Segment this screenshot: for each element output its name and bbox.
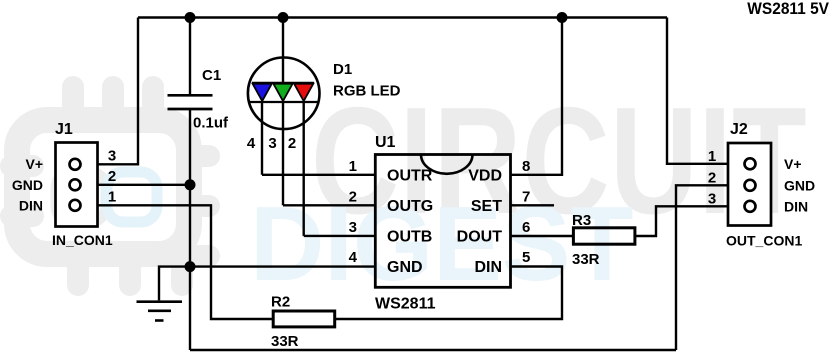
svg-text:WS2811: WS2811 (375, 296, 436, 313)
svg-text:OUTB: OUTB (387, 228, 432, 245)
wire: LED anode drop (282, 18, 284, 85)
wire: R3 to J2 pin3 (635, 206, 744, 236)
svg-text:R2: R2 (271, 294, 290, 311)
svg-text:GND: GND (387, 259, 423, 276)
wire: ground branch (159, 267, 190, 301)
svg-text:RGB LED: RGB LED (333, 83, 401, 100)
capacitor C1 (168, 95, 213, 109)
junction node: top rail / pin8 (557, 12, 568, 23)
wire: GND to IC pin4 (190, 265, 375, 267)
svg-text:GND: GND (784, 178, 815, 194)
svg-text:7: 7 (522, 188, 530, 205)
watermark logo monogram d (107, 172, 157, 222)
svg-text:WS2811 5V: WS2811 5V (747, 0, 829, 18)
wire: LED cathode drop pin3 (282, 102, 284, 205)
wire: R2 to IC pin5 (336, 267, 562, 320)
svg-text:2: 2 (349, 188, 357, 205)
svg-text:DIN: DIN (784, 199, 808, 215)
svg-text:2: 2 (108, 168, 116, 185)
wire: LED cathode drop pin2 (303, 102, 305, 236)
wire: GND bottom rail (190, 349, 676, 351)
wire: J1 pin1 DIN down to R2 (82, 205, 272, 319)
svg-text:3: 3 (108, 148, 116, 165)
svg-text:D1: D1 (333, 61, 352, 78)
junction node: top rail / LED (278, 12, 289, 23)
wire: C1 bottom lead (189, 109, 191, 185)
LED green chip (273, 84, 292, 101)
svg-text:J1: J1 (55, 121, 73, 138)
resistor R3 (573, 228, 635, 244)
wire: IC pin3 OUTB (304, 235, 375, 237)
svg-text:6: 6 (522, 219, 530, 236)
ground (137, 302, 183, 321)
svg-text:SET: SET (471, 198, 502, 215)
svg-text:2: 2 (708, 170, 716, 187)
wire: IC pin1 OUTR (262, 174, 375, 176)
connector J2 (728, 143, 771, 226)
wire: IC pin2 OUTG (283, 204, 375, 206)
wire: LED cathode drop pin4 (261, 102, 263, 175)
svg-text:DIN: DIN (19, 198, 43, 214)
wire: IC pin7 SET stub (510, 204, 554, 206)
LED blue chip (253, 84, 272, 101)
watermark logo (0, 76, 220, 296)
junction node: top rail / C1 (185, 12, 196, 23)
svg-text:3: 3 (349, 219, 357, 236)
svg-text:3: 3 (708, 191, 716, 208)
svg-text:1: 1 (108, 189, 116, 206)
svg-text:33R: 33R (572, 251, 600, 268)
svg-text:0.1uf: 0.1uf (193, 115, 229, 132)
svg-text:4: 4 (247, 135, 256, 152)
svg-text:J2: J2 (730, 121, 748, 138)
svg-text:1: 1 (349, 158, 357, 175)
svg-text:4: 4 (349, 249, 358, 266)
svg-text:V+: V+ (25, 156, 43, 172)
IC U1 WS2811 (375, 155, 510, 288)
svg-text:OUTR: OUTR (387, 167, 433, 184)
svg-text:VDD: VDD (468, 167, 502, 184)
RGB LED D1 (248, 58, 320, 130)
svg-text:DIN: DIN (474, 259, 502, 276)
svg-text:R3: R3 (572, 212, 591, 229)
wire: J1 pin3 to top rail (82, 18, 138, 165)
svg-text:DOUT: DOUT (457, 228, 503, 245)
wire: IC pin8 to top rail (510, 18, 562, 175)
svg-text:OUT_CON1: OUT_CON1 (726, 233, 802, 249)
svg-text:33R: 33R (271, 333, 299, 350)
connector J1 (56, 143, 98, 227)
wire: GND vertical (189, 185, 191, 350)
junction node: GND / ground symbol (185, 261, 196, 272)
wire: J2 pin2 to bottom rail (676, 185, 744, 350)
svg-text:IN_CON1: IN_CON1 (52, 232, 113, 248)
svg-text:8: 8 (522, 158, 530, 175)
wire: C1 top lead (189, 18, 191, 96)
svg-text:C1: C1 (202, 67, 221, 84)
wire: V+ top rail (138, 16, 667, 18)
svg-text:2: 2 (288, 135, 296, 152)
svg-text:GND: GND (12, 177, 43, 193)
svg-text:3: 3 (268, 135, 276, 152)
svg-text:OUTG: OUTG (387, 198, 433, 215)
watermark logo monogram c (56, 172, 106, 222)
wire: top rail to J2 pin1 (667, 18, 744, 164)
wire: J1 pin2 GND (82, 184, 190, 186)
svg-text:5: 5 (522, 249, 530, 266)
junction node: GND / C1 bottom (185, 179, 196, 190)
wire: IC pin6 to R3 (510, 235, 573, 237)
LED red chip (294, 84, 313, 101)
svg-text:1: 1 (708, 148, 716, 165)
resistor R2 (273, 311, 335, 327)
svg-text:V+: V+ (784, 156, 802, 172)
svg-text:U1: U1 (375, 134, 396, 151)
